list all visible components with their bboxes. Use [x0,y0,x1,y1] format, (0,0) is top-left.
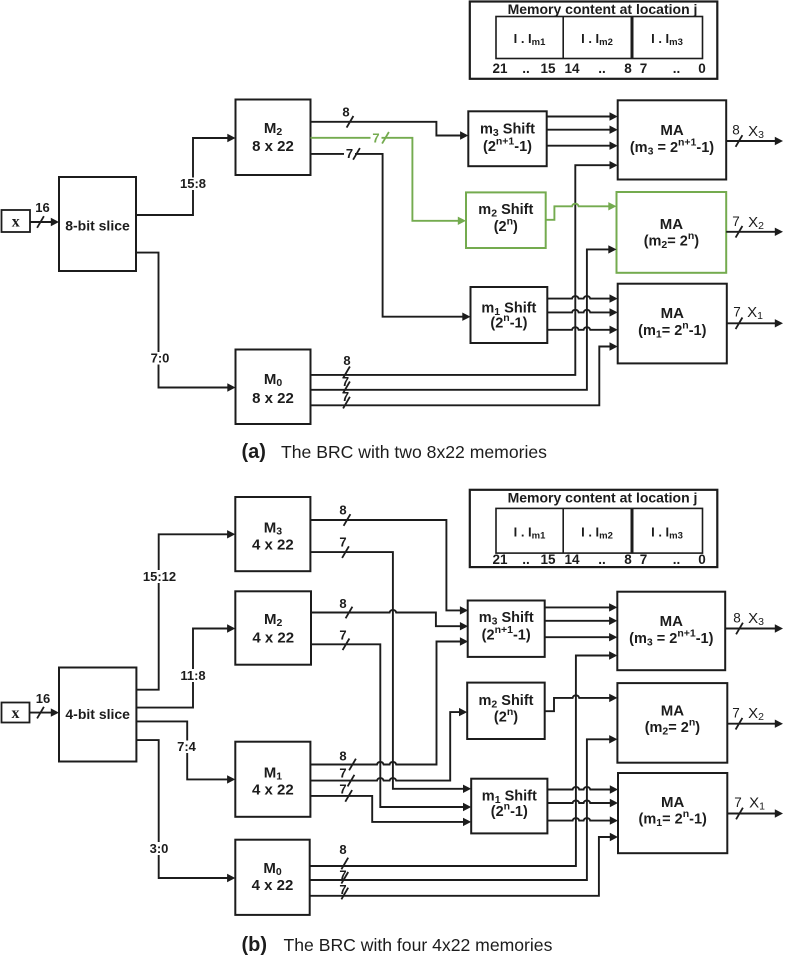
svg-text:..: .. [522,552,530,567]
svg-text:7:4: 7:4 [177,739,197,754]
svg-text:MA: MA [661,703,684,720]
svg-text:X2​: X2​ [748,705,764,723]
svg-text:(2n​-1): (2n​-1) [491,801,528,821]
svg-text:8 x 22: 8 x 22 [252,390,294,407]
svg-text:MA: MA [661,305,684,322]
svg-text:4 x 22: 4 x 22 [252,782,294,799]
svg-text:4-bit slice: 4-bit slice [65,706,130,722]
svg-text:..: .. [598,61,606,76]
svg-text:X1​: X1​ [747,304,763,322]
svg-text:8: 8 [339,503,346,518]
svg-text:4 x 22: 4 x 22 [252,877,294,894]
svg-text:7: 7 [733,305,741,320]
svg-text:The BRC with four 4x22 memorie: The BRC with four 4x22 memories [284,935,553,955]
svg-text:8-bit slice: 8-bit slice [65,218,130,234]
svg-text:8 x 22: 8 x 22 [252,138,294,155]
svg-text:8: 8 [733,611,741,626]
svg-text:8: 8 [339,596,346,611]
svg-text:X2​: X2​ [748,214,764,232]
svg-text:(m1​= 2n​-1): (m1​= 2n​-1) [638,320,706,341]
svg-text:7: 7 [640,61,648,76]
svg-text:(m3​ = 2n+1​-1): (m3​ = 2n+1​-1) [630,137,714,158]
svg-text:8: 8 [624,552,632,567]
svg-text:7: 7 [339,882,346,897]
svg-text:11:8: 11:8 [180,668,205,683]
svg-text:..: .. [673,61,681,76]
svg-text:X1​: X1​ [749,795,765,813]
svg-text:7: 7 [339,782,346,797]
svg-text:0: 0 [698,552,706,567]
svg-text:7: 7 [640,552,648,567]
svg-text:8: 8 [339,842,346,857]
svg-text:7: 7 [732,214,740,229]
svg-text:16: 16 [35,200,49,215]
svg-text:15:12: 15:12 [143,569,176,584]
svg-text:8: 8 [339,749,346,764]
svg-text:15:8: 15:8 [180,176,206,191]
svg-text:7: 7 [342,374,349,389]
svg-text:21: 21 [492,552,508,567]
svg-text:(2n​-1): (2n​-1) [490,312,527,332]
svg-text:3:0: 3:0 [150,841,169,856]
svg-text:15: 15 [540,61,556,76]
svg-text:..: .. [598,552,606,567]
svg-text:(a): (a) [242,441,266,463]
svg-text:14: 14 [564,61,580,76]
svg-text:X3​: X3​ [748,123,764,141]
svg-text:(2n​): (2n​) [494,216,518,236]
svg-text:(m1​= 2n​-1): (m1​= 2n​-1) [639,808,707,829]
svg-text:MA: MA [661,794,684,811]
svg-text:0: 0 [698,61,706,76]
svg-text:(m3​ = 2n+1​-1): (m3​ = 2n+1​-1) [629,628,713,649]
svg-text:7:0: 7:0 [151,351,170,366]
svg-text:14: 14 [564,552,580,567]
svg-text:8: 8 [342,105,349,120]
svg-text:7: 7 [732,706,740,721]
svg-text:MA: MA [660,216,683,233]
svg-text:21: 21 [492,61,508,76]
svg-text:8: 8 [343,353,350,368]
svg-text:(2n​): (2n​) [494,706,518,726]
svg-text:7: 7 [342,389,349,404]
svg-text:7: 7 [346,146,353,161]
svg-text:x: x [12,705,20,722]
svg-text:8: 8 [732,123,740,138]
svg-text:4 x 22: 4 x 22 [252,537,294,554]
svg-text:The BRC with two 8x22 memories: The BRC with two 8x22 memories [281,442,547,462]
svg-text:7: 7 [339,766,346,781]
svg-text:..: .. [522,61,530,76]
svg-text:16: 16 [36,691,50,706]
svg-text:7: 7 [734,795,742,810]
svg-text:Memory content at location j: Memory content at location j [508,490,698,506]
svg-text:7: 7 [339,628,346,643]
svg-text:X3​: X3​ [748,610,764,628]
svg-text:7: 7 [339,535,346,550]
svg-text:(b): (b) [242,934,268,956]
svg-text:8: 8 [624,61,632,76]
svg-text:..: .. [673,552,681,567]
svg-text:4 x 22: 4 x 22 [252,630,294,647]
svg-text:x: x [12,213,20,230]
svg-text:7: 7 [372,131,379,146]
svg-text:15: 15 [540,552,556,567]
svg-text:Memory content at location j: Memory content at location j [508,1,698,17]
